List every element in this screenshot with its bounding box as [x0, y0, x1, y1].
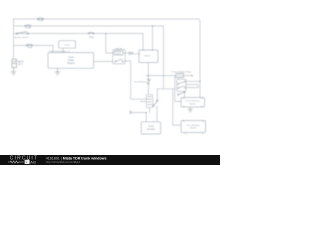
svg-text:Switch: Switch	[190, 127, 197, 130]
trunk actuator box M1	[141, 122, 160, 134]
battery V1	[12, 59, 17, 67]
svg-text:TDR Trunk Module v2: TDR Trunk Module v2	[49, 50, 71, 53]
svg-text:RELAY: RELAY	[116, 47, 123, 50]
TDR module box U1	[48, 53, 94, 69]
svg-text:Driver Window: Driver Window	[186, 100, 201, 103]
wire box bottom pin down	[147, 63, 149, 79]
wire relay to release column	[125, 61, 148, 99]
relay K1 coil	[114, 51, 123, 55]
wire release to connector	[147, 84, 149, 94]
relay K1 enclosure	[113, 50, 126, 64]
fuse F2 on line 2	[25, 25, 31, 27]
power window relay coil	[176, 73, 193, 77]
connector J1	[146, 95, 152, 108]
svg-text:KES-1: KES-1	[144, 56, 151, 58]
svg-text:Ignition Switch: Ignition Switch	[14, 36, 29, 39]
wire line 2 branch to box pin	[152, 26, 154, 50]
svg-text:http://circuitlab.com/c48j1d: http://circuitlab.com/c48j1d	[46, 160, 81, 164]
terminal T1	[130, 110, 131, 114]
relay contacts cluster	[177, 79, 186, 91]
fuse F1 on line 1	[37, 18, 43, 20]
svg-text:Lamp: Lamp	[64, 44, 70, 46]
wire line 4	[14, 45, 54, 52]
wire left rail	[13, 19, 15, 59]
wire coil feed	[106, 34, 114, 54]
driver box pin marks	[183, 98, 203, 106]
diode D1	[129, 52, 132, 55]
wire contact Z link	[186, 85, 198, 88]
pin marks U2	[139, 50, 153, 54]
svg-text:Actuator: Actuator	[147, 128, 156, 131]
pass window switch box	[181, 121, 206, 133]
wire coil right terminal	[184, 75, 192, 77]
wire line 3	[14, 34, 144, 51]
wire jog mid	[157, 88, 175, 90]
svg-text:Switch: Switch	[189, 103, 196, 106]
lower contact switch	[178, 91, 186, 95]
wire right mid rail	[163, 26, 165, 89]
svg-text:Pass Window: Pass Window	[187, 125, 201, 127]
wire horiz feed	[146, 75, 176, 77]
wire pass left feed	[173, 89, 181, 125]
svg-text:Trunk Release: Trunk Release	[134, 81, 148, 84]
svg-text:Module: Module	[67, 63, 75, 65]
wire coil to diode	[123, 52, 129, 54]
pass box pin stubs	[183, 121, 204, 134]
wire lamp drop	[62, 48, 64, 52]
aux switch SW3	[153, 100, 159, 107]
svg-text:Molex: Molex	[140, 101, 147, 103]
junction dots	[105, 25, 201, 113]
svg-text:12 V: 12 V	[18, 63, 23, 66]
svg-text:Relay: Relay	[68, 60, 75, 62]
relay K1 switch	[115, 59, 124, 62]
wire cluster down to driver pin	[184, 91, 186, 97]
keyless box U2	[139, 50, 158, 63]
ground under module	[55, 68, 60, 75]
svg-text:Fuse: Fuse	[27, 47, 33, 49]
wire jog down to aux switch	[156, 89, 158, 100]
fuse F3 on line 3	[88, 32, 94, 34]
ignition switch SW1	[16, 32, 28, 35]
ground under driver box	[188, 107, 193, 112]
svg-text:Fuse: Fuse	[26, 28, 32, 30]
svg-text:Trunk: Trunk	[148, 125, 155, 128]
ground under battery	[11, 68, 16, 75]
driver window switch box	[181, 98, 205, 108]
wire connector bottom	[149, 108, 151, 113]
svg-text:L: L	[26, 160, 28, 164]
svg-text:Fuse: Fuse	[38, 20, 44, 22]
logo zigzag	[8, 161, 24, 163]
wire module output	[94, 61, 113, 63]
wire cluster to rail	[186, 80, 200, 82]
footer bar	[0, 155, 220, 165]
svg-text:AB: AB	[30, 159, 36, 164]
svg-text:Trunk: Trunk	[68, 56, 75, 59]
lamp box L1	[59, 41, 76, 49]
wire top line 1	[14, 19, 201, 98]
svg-text:Fuse: Fuse	[89, 37, 95, 39]
wire actuator pin2	[156, 107, 158, 123]
logo LAB box	[25, 160, 30, 164]
trunk release switch SW2	[148, 79, 151, 85]
wire diode to box	[133, 53, 139, 55]
wire driver left feed	[175, 76, 181, 102]
wire line 2	[14, 25, 164, 27]
fuse F4 on line 4	[26, 44, 32, 46]
wire actuator pin1	[132, 113, 147, 122]
